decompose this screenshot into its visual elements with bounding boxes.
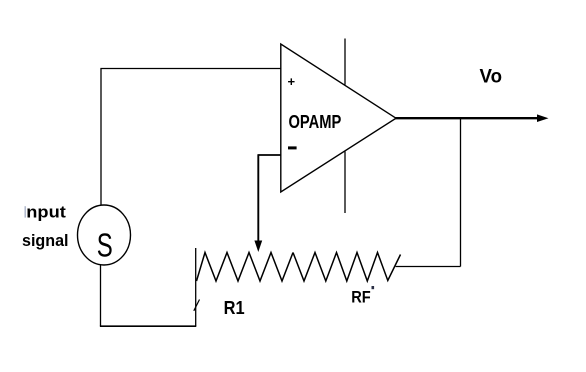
resistor R1 (left part of zigzag) <box>197 253 294 282</box>
svg-text:R1: R1 <box>224 298 245 318</box>
wire: R1 left lead vertical <box>195 248 197 326</box>
svg-text:+: + <box>288 74 296 89</box>
svg-text:S: S <box>97 226 113 263</box>
wire: top horizontal to op-amp + input <box>100 68 281 70</box>
power rail top (vertical line above op-amp) <box>344 39 346 85</box>
power rail bottom (vertical line below op-amp) <box>344 152 346 214</box>
arrowhead: feedback arrow pointing at resistor <box>254 241 262 253</box>
arrowhead: output arrow <box>537 114 549 122</box>
svg-text:Vo: Vo <box>480 66 503 87</box>
svg-text:OPAMP: OPAMP <box>289 112 342 132</box>
op-amp - input marker <box>288 146 297 149</box>
op-amp U1 (triangle) <box>281 44 396 192</box>
label: Input (clipped I at image edge) <box>25 203 67 222</box>
wire: output line (thick) <box>395 117 540 119</box>
wire: source bottom lead (vertical down) <box>100 265 102 326</box>
wire: feedback vertical from output node down to RF <box>460 118 462 266</box>
wire: inverting input horizontal lead <box>258 154 281 156</box>
svg-text:nput: nput <box>26 203 66 222</box>
wire: inverting input vertical with arrow down to R1/RF junction <box>257 154 259 243</box>
wire: small tick on R1 left lead <box>194 300 200 311</box>
wire: RF right lead horizontal <box>396 266 461 268</box>
wire: source top lead to non-inverting input (vertical up from source) <box>100 69 102 206</box>
source S (circle) <box>78 205 131 265</box>
stray speck near RF <box>372 286 375 289</box>
svg-text:RF: RF <box>351 287 371 306</box>
resistor RF (right part of zigzag) <box>293 253 401 282</box>
wire: bottom horizontal from source to R1 <box>100 325 196 327</box>
svg-text:signal: signal <box>22 231 69 250</box>
